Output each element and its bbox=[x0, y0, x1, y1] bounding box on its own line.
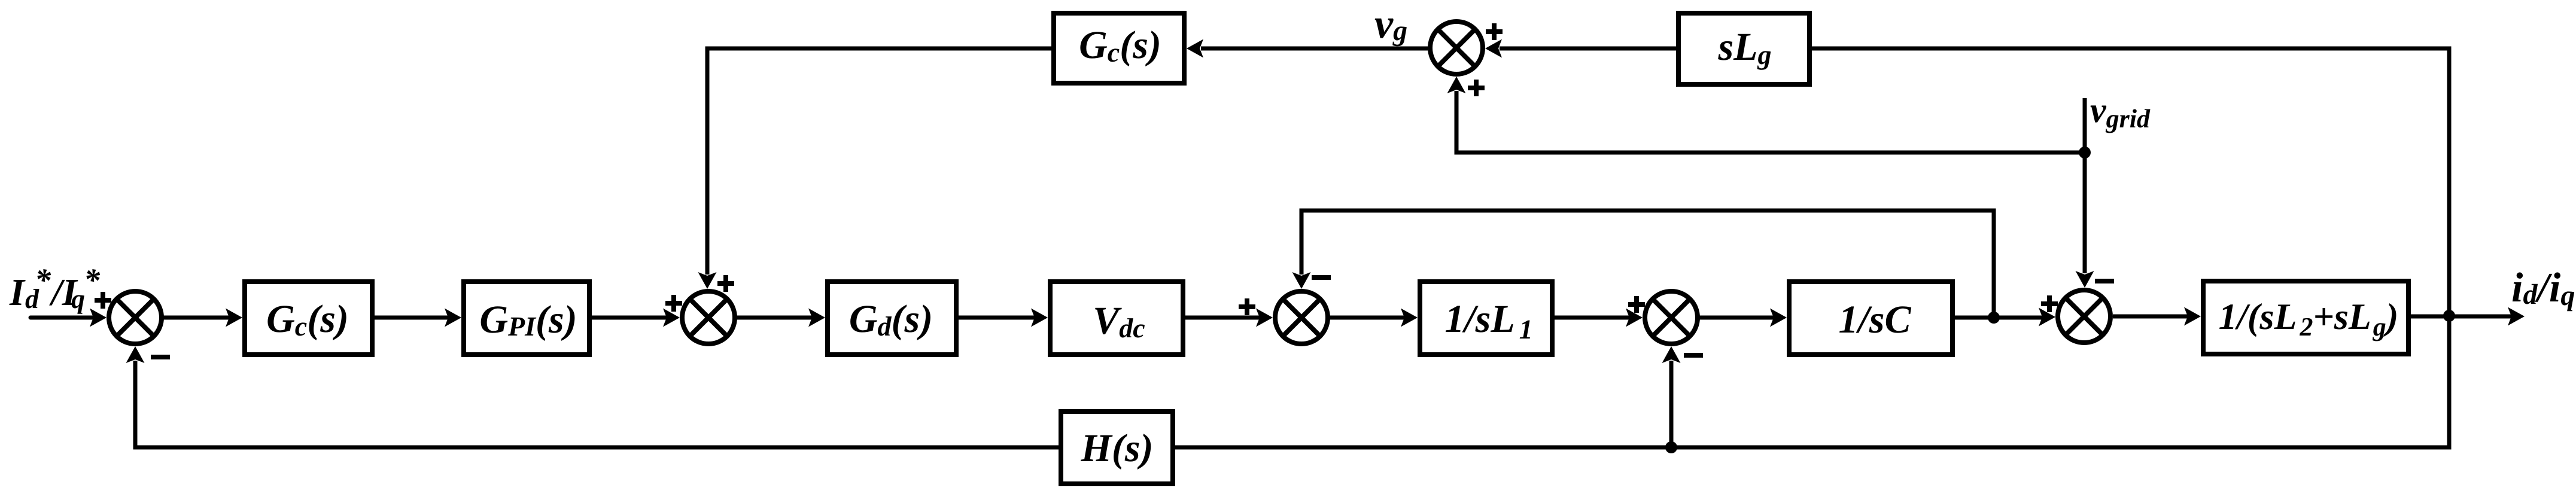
wire input to S1 bbox=[31, 316, 95, 320]
wire Gd to Vdc bbox=[957, 316, 1036, 320]
wire S4 bottom riser bbox=[1669, 361, 1674, 447]
block 1/sL1 bbox=[1420, 282, 1552, 355]
node dot vgrid bbox=[2079, 147, 2091, 158]
block sLg bbox=[1678, 13, 1809, 84]
svg-text:*: * bbox=[35, 262, 51, 298]
sign plus S3 bbox=[1239, 298, 1255, 315]
summing junction S2 bbox=[682, 291, 735, 344]
arrow into GPI bbox=[445, 309, 461, 327]
arrow up into S6 bottom bbox=[1447, 77, 1466, 93]
summing junction S6 vg bbox=[1430, 22, 1483, 74]
wire vg junction out to top Gc bbox=[1201, 47, 1428, 51]
wire top Gc out down to S2 bbox=[707, 48, 1051, 275]
svg-text:q: q bbox=[71, 283, 85, 314]
sign plus S2 top bbox=[717, 275, 734, 292]
summing junction S3 bbox=[1275, 291, 1328, 344]
wire S2 to Gd bbox=[736, 316, 813, 320]
block GPI(s) bbox=[464, 282, 589, 355]
svg-text:sLg: sLg bbox=[1718, 25, 1772, 70]
arrow into Gc bbox=[226, 309, 242, 327]
block Vdc bbox=[1050, 282, 1183, 355]
arrow down into S5 top bbox=[2076, 271, 2094, 288]
arrow into 1/sL1 bbox=[1401, 309, 1418, 327]
wire Vdc to S3 bbox=[1184, 316, 1261, 320]
sign plus S4 bbox=[1628, 296, 1645, 313]
arrow into S1 bbox=[90, 309, 107, 327]
sign plus S6 right bbox=[1486, 23, 1503, 40]
node dot 1/sC output bbox=[1988, 312, 2000, 324]
block Gd(s) bbox=[828, 282, 956, 355]
svg-text:Gc(s): Gc(s) bbox=[1079, 23, 1161, 68]
wire 1/sL1 to S4 bbox=[1553, 316, 1631, 320]
arrow into S3 bbox=[1256, 309, 1273, 327]
svg-text:I: I bbox=[9, 271, 26, 313]
sign plus S5 bbox=[2041, 295, 2058, 312]
sign minus S5 bbox=[2095, 279, 2114, 283]
arrow into Vdc bbox=[1031, 309, 1048, 327]
block 1/(sL2+sLg) bbox=[2203, 281, 2408, 354]
svg-text:Vdc: Vdc bbox=[1093, 299, 1145, 343]
arrow into Gd bbox=[808, 309, 825, 327]
wire S4 to 1/sC bbox=[1699, 316, 1775, 320]
svg-text:id/iq: id/iq bbox=[2511, 265, 2575, 312]
summing junction S5 bbox=[2058, 290, 2110, 343]
arrow left into S6 right bbox=[1485, 39, 1502, 58]
svg-text:H(s): H(s) bbox=[1081, 426, 1154, 470]
svg-text:vg: vg bbox=[1374, 1, 1407, 47]
block H(s) bbox=[1061, 411, 1173, 484]
arrow output bbox=[2508, 307, 2525, 326]
svg-text:Gc(s): Gc(s) bbox=[266, 297, 349, 342]
arrow into S5 bbox=[2039, 308, 2055, 327]
svg-text:1/sL1: 1/sL1 bbox=[1444, 297, 1532, 344]
wire 1/sC to S5 bbox=[1954, 316, 2043, 320]
wire output riser top and bottom feedback bbox=[1175, 48, 2449, 447]
svg-text:GPI(s): GPI(s) bbox=[479, 298, 577, 342]
block 1/sC bbox=[1789, 282, 1952, 355]
svg-text:Gd(s): Gd(s) bbox=[849, 297, 933, 342]
node dot bottom feedback bbox=[1665, 441, 1677, 453]
summing junction S4 bbox=[1645, 291, 1698, 344]
wire vgrid horizontal to S6 riser bbox=[1456, 91, 2085, 153]
wire 1/sC tap feedback to S3 bbox=[1301, 211, 1994, 318]
arrow down into S2 top bbox=[698, 272, 717, 289]
wire Gc to GPI bbox=[373, 316, 449, 320]
sign minus S3 bbox=[1312, 275, 1331, 280]
svg-text:vgrid: vgrid bbox=[2090, 90, 2151, 133]
arrow into 1/(sL2+sLg) bbox=[2184, 307, 2201, 326]
arrow left into top Gc bbox=[1187, 39, 1203, 58]
wire vgrid stub down to S5 bbox=[2083, 98, 2087, 273]
summing junction S1 bbox=[109, 291, 162, 344]
wire feedback H(s) riser to S1 bbox=[135, 361, 1059, 447]
node dot output bbox=[2443, 310, 2455, 322]
sign plus S2 left bbox=[665, 295, 682, 312]
svg-text:*: * bbox=[84, 262, 101, 298]
arrow up into S1 bottom bbox=[126, 346, 145, 363]
arrow into S4 bbox=[1626, 309, 1643, 327]
wire S5 to 1/(sL2+sLg) bbox=[2113, 315, 2189, 319]
block Gc(s) main bbox=[245, 282, 372, 355]
sign plus S1 bbox=[95, 292, 111, 309]
sign minus S4 bbox=[1684, 353, 1703, 358]
arrow down into S3 top bbox=[1292, 272, 1311, 289]
wire S1 to Gc bbox=[163, 316, 230, 320]
sign minus S1 bbox=[151, 355, 170, 359]
svg-text:1/(sL2+sLg): 1/(sL2+sLg) bbox=[2219, 297, 2399, 342]
block Gc(s) top bbox=[1054, 13, 1184, 83]
sign plus S6 bottom bbox=[1468, 80, 1485, 96]
wire S3 to 1/sL1 bbox=[1329, 316, 1406, 320]
arrow up into S4 bottom bbox=[1662, 346, 1681, 363]
wire sLg to vg junction bbox=[1500, 47, 1676, 51]
svg-text:1/sC: 1/sC bbox=[1838, 298, 1911, 342]
arrow into S2 bbox=[663, 309, 680, 327]
arrow into 1/sC bbox=[1770, 309, 1787, 327]
wire GPI to S2 bbox=[589, 316, 668, 320]
wire output bbox=[2410, 315, 2511, 319]
